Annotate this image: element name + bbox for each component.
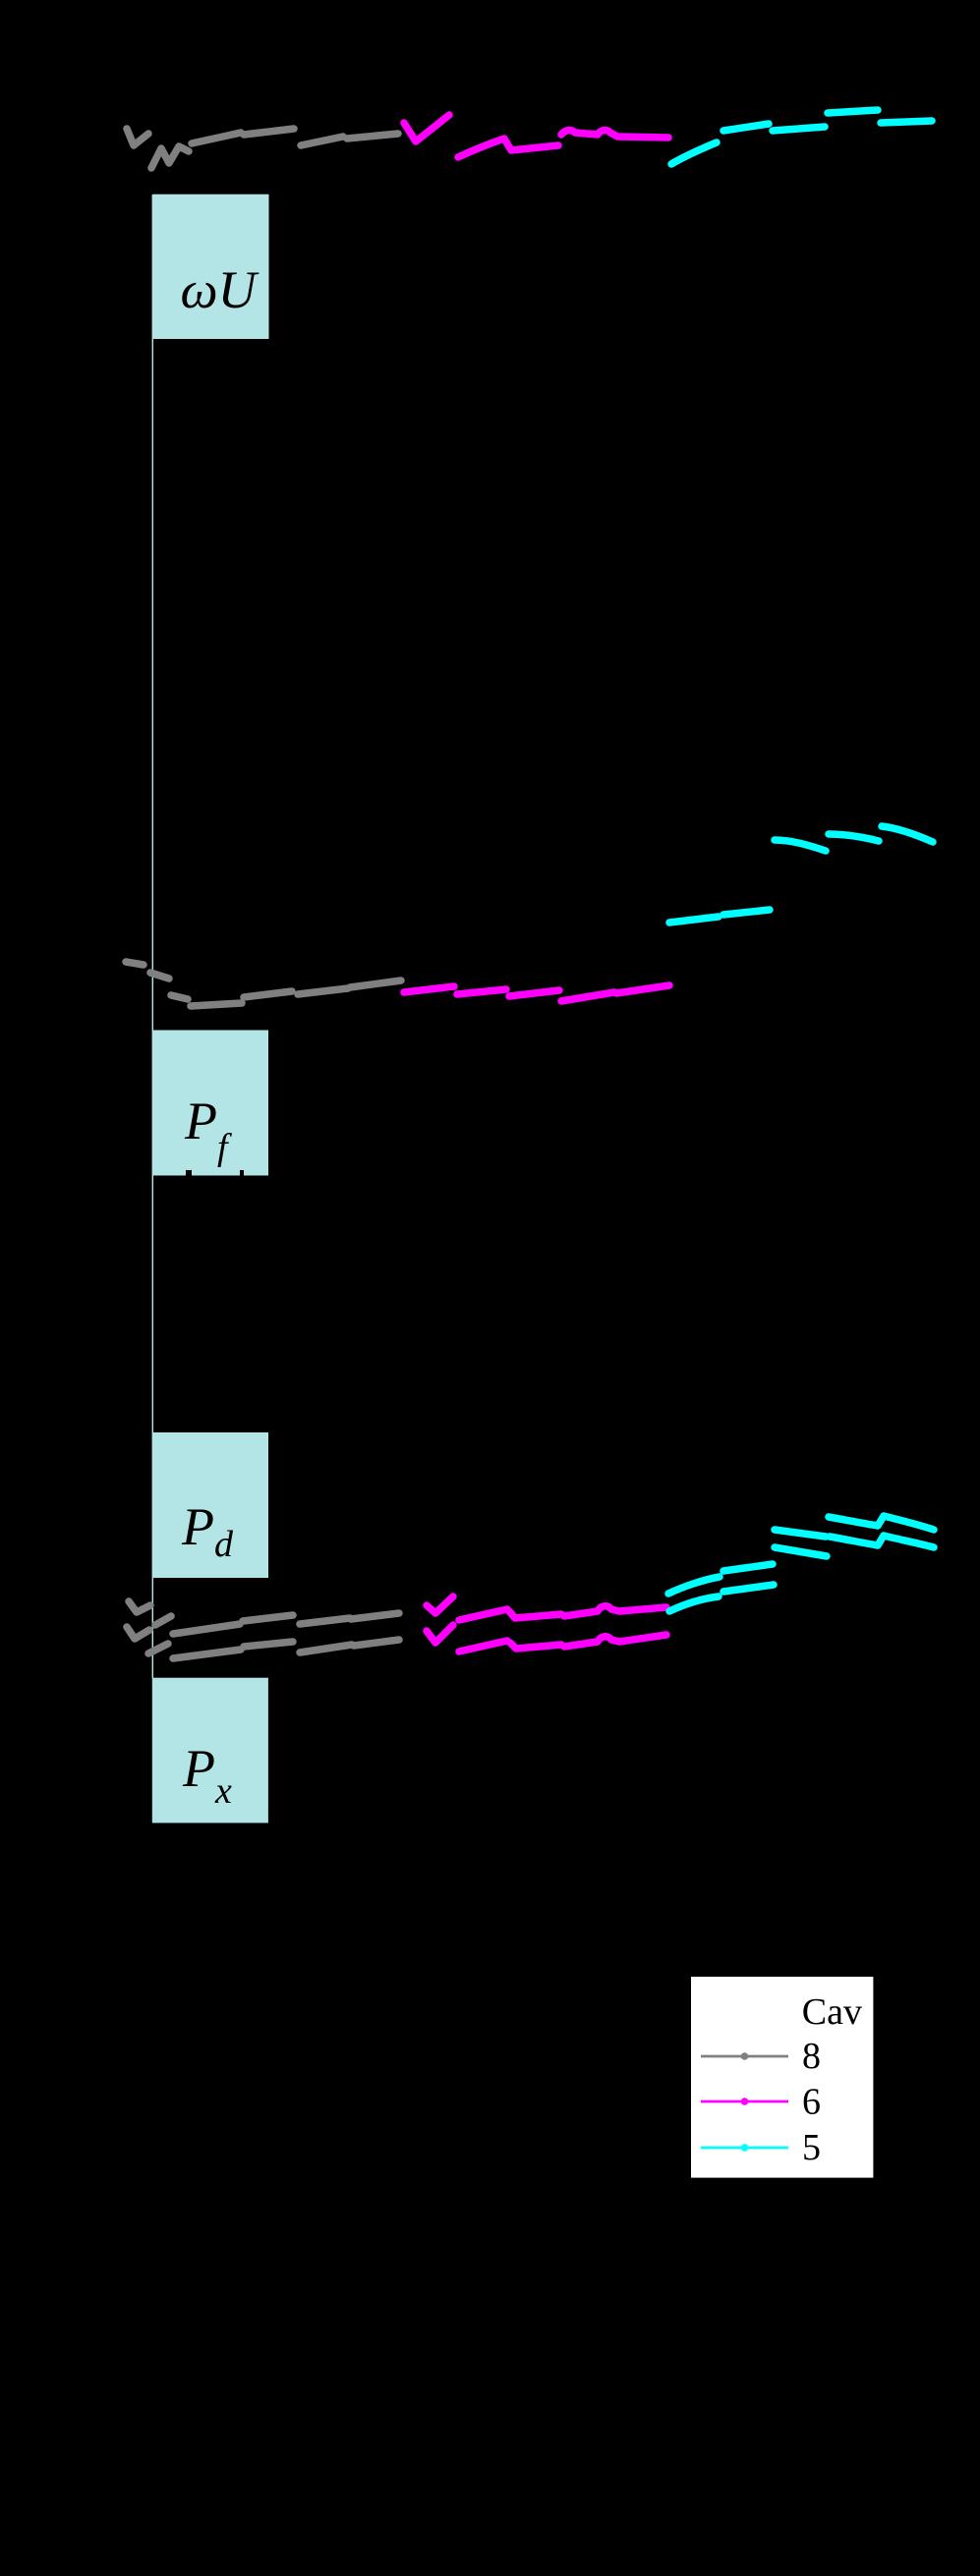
- legend line Cav5: [701, 2147, 788, 2150]
- panel1 gray curve Cav8: [127, 129, 398, 168]
- strip box Pf: [153, 1031, 269, 1176]
- panel3 gray upper curve Cav8: [129, 1601, 399, 1634]
- strip box omega-U: [152, 195, 268, 339]
- legend line Cav8: [701, 2055, 788, 2058]
- Pf bottom notch 2: [240, 1170, 244, 1177]
- panel3 gray lower curve Cav8: [127, 1627, 399, 1658]
- legend box: [691, 1977, 873, 2178]
- strip box Pd: [153, 1432, 268, 1578]
- panel1 magenta curve Cav6: [404, 115, 668, 157]
- panel3 cyan lower curve Cav5: [669, 1536, 934, 1611]
- panel3 magenta lower curve Cav6: [427, 1625, 666, 1652]
- svg-text:6: 6: [802, 2082, 821, 2123]
- panel2 cyan curve Cav5: [669, 826, 933, 923]
- panel3 cyan upper curve Cav5: [668, 1516, 934, 1594]
- panel2 gray curve Cav8: [126, 962, 401, 1006]
- panel3 magenta upper curve Cav6: [427, 1596, 666, 1620]
- panel2 magenta curve Cav6: [404, 985, 669, 1001]
- panel1 cyan curve Cav5: [671, 110, 932, 164]
- svg-text:ωU: ωU: [180, 260, 259, 319]
- y-axis line: [151, 195, 153, 1678]
- svg-text:5: 5: [802, 2127, 821, 2168]
- Pf bottom notch 1: [186, 1170, 192, 1177]
- svg-text:Cav: Cav: [802, 1991, 862, 2033]
- svg-text:8: 8: [802, 2036, 821, 2077]
- strip box Px: [152, 1678, 268, 1823]
- legend line Cav6: [701, 2100, 788, 2103]
